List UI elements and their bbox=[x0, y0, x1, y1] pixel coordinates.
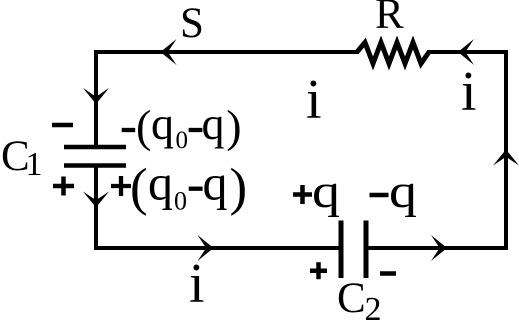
svg-text:R: R bbox=[375, 0, 404, 38]
svg-text:q: q bbox=[312, 165, 340, 218]
C1 plus sign bbox=[53, 177, 74, 196]
label -(q0-q) upper bbox=[122, 128, 136, 132]
current arrow right on bottom wire (right of C2) bbox=[431, 235, 447, 261]
svg-text:q: q bbox=[389, 165, 417, 218]
capacitor C1 bottom plate bbox=[64, 163, 126, 168]
capacitor C1 top plate bbox=[64, 145, 126, 150]
label -q bbox=[370, 193, 389, 198]
svg-text:0: 0 bbox=[176, 127, 189, 154]
C1 minus sign bbox=[52, 123, 73, 128]
svg-text:2: 2 bbox=[365, 291, 382, 321]
wire C1 bottom to bottom-left corner to C2 bbox=[96, 168, 339, 248]
svg-text:(: ( bbox=[136, 101, 151, 152]
svg-text:q: q bbox=[148, 155, 173, 211]
svg-text:i: i bbox=[189, 253, 205, 315]
svg-text:q: q bbox=[151, 98, 174, 149]
svg-text:(: ( bbox=[130, 159, 148, 217]
resistor R bbox=[357, 43, 429, 64]
current arrow down on left wire (lower) bbox=[83, 192, 109, 208]
wire resistor to top-right corner down to bottom-right corner bbox=[368, 52, 506, 248]
label +q bbox=[293, 185, 312, 204]
svg-text:q: q bbox=[203, 155, 228, 211]
current arrow up on right wire bbox=[493, 150, 519, 166]
wire top-left to resistor bbox=[96, 52, 357, 145]
svg-text:S: S bbox=[180, 0, 204, 47]
svg-text:0: 0 bbox=[174, 187, 187, 216]
C2 plus sign bbox=[310, 262, 327, 279]
svg-text:1: 1 bbox=[26, 146, 43, 183]
svg-text:i: i bbox=[306, 69, 322, 131]
current arrow down on left wire (upper) bbox=[83, 88, 109, 104]
capacitor C2 left plate bbox=[339, 221, 344, 279]
capacitor C2 right plate bbox=[364, 221, 369, 279]
svg-text:i: i bbox=[461, 61, 477, 123]
svg-text:q: q bbox=[202, 98, 225, 149]
current arrow left on top wire (right of R) bbox=[458, 39, 474, 65]
svg-text:C: C bbox=[337, 275, 366, 321]
current arrow right on bottom wire (left) bbox=[198, 235, 214, 261]
C2 minus sign bbox=[380, 271, 396, 276]
svg-text:): ) bbox=[230, 159, 248, 217]
current arrow left on top wire (near S) bbox=[161, 39, 177, 65]
svg-text:): ) bbox=[226, 101, 241, 152]
label +(q0-q) lower bbox=[111, 176, 131, 196]
